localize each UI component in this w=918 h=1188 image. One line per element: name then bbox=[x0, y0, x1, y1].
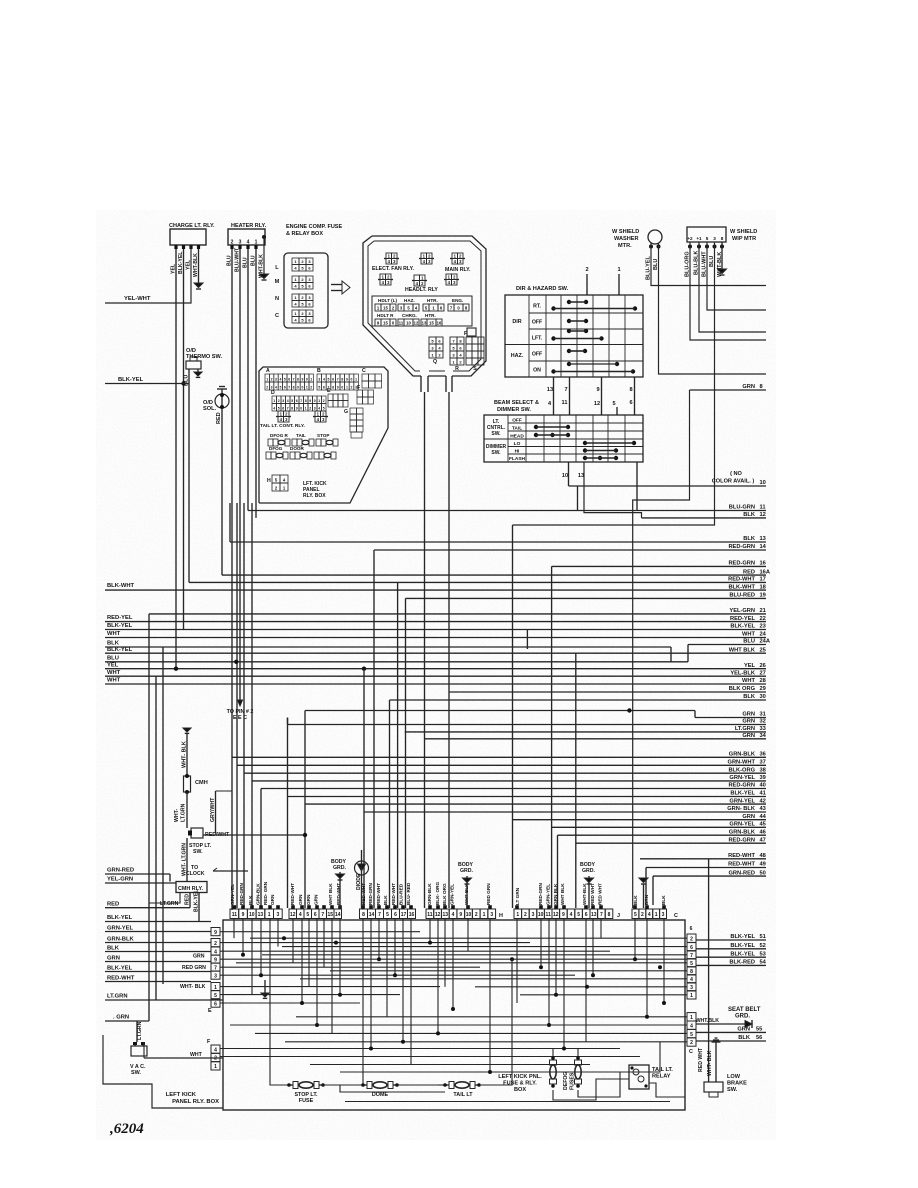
connector D cells bbox=[272, 396, 277, 404]
ground CMH chain top bbox=[183, 728, 191, 732]
wire from engine box leg B bbox=[448, 392, 450, 908]
motor washer body bbox=[648, 230, 662, 244]
ground BRN wire bbox=[639, 878, 648, 883]
wire BLU 24A bbox=[688, 644, 766, 646]
wire BLK 12 bbox=[642, 517, 767, 519]
trunk vertical at 405.5 lines 19/33 bbox=[405, 598, 407, 908]
wire WHT 28 bbox=[105, 683, 766, 685]
dir hazard pin 1 bbox=[618, 274, 620, 295]
jog vertical 688 bbox=[687, 645, 689, 662]
wire RED-WHT 49 bbox=[646, 867, 766, 869]
junction stub/trunk 632 bbox=[627, 708, 631, 712]
fuse row 1 bbox=[268, 439, 273, 446]
trunk vertical at 397.6 from line 17 bbox=[397, 582, 399, 908]
left connector column cells F group bbox=[211, 1045, 220, 1053]
trunk wire from lower box bottom c bbox=[251, 503, 253, 908]
connector row group 2 cells 12 4 5 6 7 15 14 bbox=[289, 909, 297, 919]
beam select contacts FLASH bbox=[583, 456, 587, 460]
charge rly pins bbox=[174, 245, 177, 249]
engine relay box inner outline bbox=[374, 241, 481, 371]
wire BLU-ORG wiper to line 5 bbox=[690, 242, 766, 340]
wire from engine box leg A bbox=[424, 392, 426, 908]
washer motor leads bbox=[649, 245, 653, 249]
trunk wire from lower box bottom a bbox=[236, 503, 238, 908]
engine relay box outer outline bbox=[372, 236, 486, 376]
engine box fuse table frame bbox=[372, 296, 472, 326]
switch VAC SW bbox=[131, 1046, 147, 1056]
wire BLK-YEL from CMH RLY bbox=[198, 892, 200, 922]
wire GRN 44 bbox=[513, 819, 767, 821]
wire BLK-YEL 53 bbox=[696, 956, 766, 958]
wire BLK-YEL left line bbox=[105, 383, 189, 385]
switch O/D THERMO SW body bbox=[186, 361, 201, 369]
relay top middle symbol bbox=[421, 253, 427, 259]
wire LT.GRN into box bbox=[105, 999, 223, 1001]
wire YEL-GRN 21 bbox=[149, 613, 766, 615]
wire BLK-YEL 51 bbox=[696, 939, 766, 941]
wire GRN- BLK 43 bbox=[364, 811, 766, 813]
ground inside box bbox=[261, 993, 269, 997]
trunk vertical from line 14 bbox=[373, 550, 375, 908]
relay TAIL LT RELAY bbox=[629, 1065, 649, 1089]
solenoid O/D SOL body bbox=[215, 394, 229, 408]
O/D sol top tick bbox=[217, 388, 227, 390]
wire BLU heater pin 4 to line 11 bbox=[247, 249, 249, 511]
vertical link line10 to line11 bbox=[577, 486, 579, 511]
dir hazard contacts OFF bbox=[567, 319, 571, 323]
trunk vertical from line 30 bbox=[389, 700, 391, 908]
beam select contacts HEAD bbox=[534, 433, 538, 437]
junction YEL/trunk364 bbox=[362, 667, 366, 671]
wire LT GRN from CMH RLY bbox=[149, 892, 180, 903]
wire BLU-BLK wiper to line 4 bbox=[699, 242, 766, 332]
wire RED-YEL 22 bbox=[105, 621, 766, 623]
ground charge rly pin 4 bbox=[194, 283, 203, 288]
wire GRN-YEL into left kick box bbox=[105, 931, 211, 933]
beam select bottom pin 13 bbox=[584, 462, 642, 518]
relay HEATER RLY. body bbox=[228, 229, 265, 245]
wire BLU from O/D thermo to RED-WHT 17 bbox=[188, 369, 190, 582]
wire BLK-YEL 23 bbox=[527, 629, 766, 631]
connector A cells bbox=[265, 374, 269, 382]
wire from lower box to line 13 bbox=[229, 503, 231, 542]
wire RED-GRN 16 bbox=[552, 565, 766, 567]
trunk vertical 305 with stop light branch bbox=[304, 711, 306, 909]
wire WHT-BLK wiper to ground bbox=[721, 242, 723, 269]
connector H cells bbox=[272, 475, 280, 483]
wire GRY-WHT branch bbox=[216, 790, 233, 792]
wire BLK-YEL 52 bbox=[696, 948, 766, 950]
wire GRN-WHT 37 bbox=[237, 764, 766, 766]
wire WHT-BLK heater to ground bbox=[262, 235, 266, 239]
ground wiper motor bbox=[718, 269, 727, 274]
connector E cells bbox=[328, 394, 333, 401]
wire vac sw pin2 to WHT bbox=[143, 1042, 145, 1058]
wire YEL-GRN to CMH RLY bbox=[105, 882, 176, 884]
wire GRN 34 bbox=[425, 738, 767, 740]
beam select bottom stub to line 11 bbox=[636, 462, 638, 511]
trunk vertical from line 40 bbox=[260, 789, 262, 909]
wire RED-WHT stop sw to trunk bbox=[203, 834, 305, 836]
trunk vertical 163 bbox=[162, 647, 164, 984]
trunk vertical 575 from line 25 bbox=[575, 653, 577, 908]
wire RED 16A bbox=[222, 574, 766, 576]
connector F cells bbox=[357, 390, 363, 397]
wire GRN 31 bbox=[695, 717, 766, 719]
wire GRN into left kick box bbox=[105, 961, 211, 963]
wire WHT-BLK to CMH bbox=[186, 734, 188, 776]
wire BLK-WHT 18 bbox=[105, 589, 766, 591]
engine relay box bottom legs bbox=[451, 376, 453, 392]
dir hazard contacts ON bbox=[567, 362, 571, 366]
beam select switch grid bbox=[484, 415, 643, 462]
wire BLU wiper trunk bbox=[513, 242, 715, 525]
connector row group 3 cells 8 14 7 5 6 17 16 bbox=[360, 909, 368, 919]
wire BLU-YEL washer to line 1 bbox=[651, 243, 766, 286]
wire GRN 8 bbox=[690, 389, 767, 391]
connector Q cells bbox=[429, 337, 436, 344]
wire BLU washer to line 7 bbox=[659, 243, 767, 374]
wire RED left line bbox=[105, 907, 190, 909]
trunk vertical 156 bbox=[155, 676, 157, 1000]
wire RED-GRN 40 bbox=[261, 788, 766, 790]
trunk vertical 512 wiper blu bbox=[512, 525, 514, 908]
dir hazard contacts LFT bbox=[567, 329, 571, 333]
box interior vertical wires bbox=[234, 919, 664, 1072]
wire GRN-RED to CMH RLY bbox=[105, 873, 170, 875]
wire BLK 30 bbox=[390, 699, 767, 701]
wire BLU-GRN 11 bbox=[248, 510, 766, 512]
ground WHT-BLK low brake bbox=[712, 1041, 721, 1043]
wire WHT into box bbox=[144, 1057, 223, 1059]
wire BLU left segment feeding 24A bbox=[105, 661, 688, 663]
connector block small fuse cells bbox=[292, 258, 299, 265]
relay row2 left symbol bbox=[380, 274, 386, 280]
wire RED WHT to low brake sw bbox=[708, 859, 710, 1082]
fuse row 2 bbox=[266, 452, 271, 459]
trunk wire from lower box bottom b bbox=[243, 503, 245, 908]
wire BLU-RED 19 bbox=[406, 597, 767, 599]
relay ELECT FAN RLY symbol bbox=[386, 253, 392, 259]
trunk vertical from line 49 bbox=[645, 868, 647, 906]
beam select bottom pin 10 bbox=[568, 462, 570, 486]
wire GRN-YEL 45 bbox=[552, 826, 766, 828]
trunk vertical from line 16 bbox=[551, 566, 553, 908]
wire YEL from charge rly pin 3 to YEL-WHT bbox=[123, 249, 191, 303]
wire RED-WHT 48 bbox=[640, 858, 766, 860]
relay symbol tail lt cont 1 bbox=[278, 411, 284, 417]
connector row group 1 cells 11 9 10 13 1 3 bbox=[230, 909, 239, 919]
wire BLK into left kick box bbox=[105, 951, 211, 953]
relay MAIN RLY symbol bbox=[452, 253, 458, 259]
wire YEL from charge rly pin 1 bbox=[175, 249, 177, 669]
dir hazard switch grid bbox=[505, 295, 643, 377]
ground heater rly bbox=[260, 274, 269, 279]
wire BLK-YEL from charge rly pin 2 bbox=[183, 249, 185, 630]
wire dome to tail bbox=[397, 1084, 449, 1086]
trunk vertical from line 32 bbox=[287, 718, 289, 909]
beam select contacts LO bbox=[583, 441, 587, 445]
wire BLK 56 bbox=[696, 1040, 766, 1042]
wire BLK-RED 54 bbox=[696, 964, 766, 966]
wire WHT-LT.GRN CMH to stop lt sw bbox=[186, 792, 188, 828]
switch STOP LT SW bbox=[191, 828, 203, 838]
wire GRN-RED 50 bbox=[653, 875, 766, 877]
dir hazard bottom pins 13 7 9 8 bbox=[553, 377, 555, 415]
trunk vertical from line 46 bbox=[557, 835, 559, 908]
switch LOW BRAKE SW bbox=[704, 1082, 723, 1092]
wire YEL-BLK 27 bbox=[105, 675, 766, 677]
wire GRN 55 bbox=[696, 1031, 766, 1033]
wire BLK-YEL left to jog bbox=[105, 629, 527, 631]
wire BLU-WHT heater pin 3 to EEC bbox=[239, 249, 241, 700]
wire BLK left segment bbox=[105, 646, 671, 648]
wire BLU-WHT wiper to line 3 bbox=[707, 242, 766, 310]
fuse DEFOG 1 bbox=[550, 1060, 557, 1065]
dir hazard contacts RT bbox=[567, 300, 571, 304]
wire RED from CMH RLY bbox=[189, 892, 191, 908]
connector wiper motor body bbox=[687, 227, 726, 242]
beam select contacts TAIL bbox=[534, 425, 538, 429]
wire BLK-YEL into left kick box bbox=[105, 971, 211, 973]
wire BLK-YEL 41 bbox=[288, 796, 767, 798]
wire YEL-WHT stub bbox=[105, 302, 123, 304]
relay CMH RLY bbox=[176, 882, 207, 893]
wire vac sw pin1 bbox=[136, 1021, 138, 1042]
wire BLK 13 bbox=[230, 541, 766, 543]
wire RED through O/D sol to RED16A bbox=[221, 389, 223, 575]
wire YEL 26 bbox=[105, 668, 766, 670]
wire (NO COLOR AVAIL) 10 bbox=[569, 485, 767, 487]
relay row2 right symbol bbox=[446, 274, 452, 280]
wire BLK-ORG 38 bbox=[244, 772, 766, 774]
wire bottom left corner bbox=[103, 1035, 223, 1108]
left kick panel fuse box outline bbox=[259, 367, 388, 503]
dir hazard contacts OFF2 bbox=[567, 349, 571, 353]
wire GRN-BLK into left kick box bbox=[105, 942, 211, 944]
fuse table row2 cells bbox=[375, 319, 381, 326]
relay CHARGE LT. RLY. body bbox=[170, 229, 206, 245]
wire GRN to vac sw bbox=[105, 1020, 149, 1022]
wire BLU heater pin 2 trunk bbox=[231, 249, 233, 910]
jog vertical 671 bbox=[670, 647, 672, 662]
fuse CMH bbox=[184, 776, 191, 792]
junction YEL/charge wire bbox=[174, 667, 178, 671]
wire WHT-BLK from charge rly pin 4 bbox=[198, 249, 200, 283]
fuse TAIL LT bbox=[449, 1082, 454, 1089]
wire GRN-BLK 36 bbox=[232, 756, 766, 758]
wire GRN 8 vertical drop bbox=[633, 390, 690, 908]
fuse DEFOG 2 bbox=[575, 1060, 582, 1065]
wire RED-WHT into left kick box bbox=[105, 981, 211, 983]
connector C cells bbox=[362, 374, 369, 381]
wire WHT 24 bbox=[105, 637, 766, 639]
beam select contacts HI bbox=[583, 448, 587, 452]
junction stop sw wire bbox=[303, 833, 307, 837]
jog vertical 695 bbox=[694, 711, 696, 718]
wire WHT BLK 25 bbox=[105, 652, 766, 654]
vertical wire labels above connector row bbox=[230, 881, 666, 905]
wire LT.GRN 33 bbox=[405, 731, 766, 733]
connector G cells bbox=[350, 408, 357, 414]
wire BLK ORG 29 bbox=[449, 691, 766, 693]
jog vertical at 527 bbox=[526, 630, 528, 650]
right connector column cells upper bbox=[687, 934, 696, 942]
relay symbol tail lt cont 2 bbox=[315, 411, 321, 417]
wire GRN-YEL 39 bbox=[252, 780, 766, 782]
connector row group 6 cells 5 2 4 1 3 bbox=[632, 909, 639, 919]
paper grain overlay bbox=[96, 210, 776, 1140]
junction on BLU segment bbox=[234, 660, 238, 664]
box interior horizontal wires bbox=[220, 932, 687, 1072]
trunk vertical from line 50 bbox=[652, 876, 654, 905]
connector S cells bbox=[466, 337, 472, 344]
wire GRN 32 bbox=[288, 724, 767, 726]
relay row2 middle symbol bbox=[414, 275, 420, 281]
box LEFT KICK PANEL RLY BOX outline bbox=[223, 920, 685, 1110]
wire WHT-LT.GRN below stop sw bbox=[186, 838, 188, 882]
wire BLK-YEL left line bbox=[105, 921, 211, 923]
arrow TO PIN #2 EEC bbox=[238, 700, 243, 706]
box interior junction dots bbox=[241, 936, 666, 1074]
trunk vertical from YEL line at 364 bbox=[363, 669, 365, 908]
connector row group 4 cells 11 12 13 4 9 10 2 1 3 bbox=[426, 909, 434, 919]
wire RED-WHT 17 bbox=[189, 581, 766, 583]
junction charge pin2 / BLK YEL bbox=[181, 381, 185, 385]
wire GRN-YEL 42 bbox=[305, 803, 766, 805]
connector R cells bbox=[450, 337, 457, 344]
ground O/D thermo bbox=[197, 369, 199, 372]
arrow to relay box bbox=[331, 284, 342, 286]
dir hazard pin 2 bbox=[586, 274, 588, 295]
left connector column cells bbox=[211, 928, 220, 936]
wire stub feeder line 31 bbox=[305, 710, 695, 712]
solder dots above connector row bbox=[233, 905, 666, 909]
box interior drop wires to fuses bbox=[270, 1017, 289, 1085]
wire RED-GRN 14 bbox=[374, 549, 766, 551]
connector block L M N C bbox=[284, 253, 328, 328]
wire GRN-BLK 46 bbox=[558, 834, 767, 836]
connector row group 5 cells 1 2 3 10 11 12 9 4 5 6 13 7 8 bbox=[514, 909, 522, 919]
fuse STOP LT FUSE bbox=[293, 1082, 298, 1089]
fuse DOME bbox=[367, 1082, 372, 1089]
wire RED-GRN 47 bbox=[576, 842, 766, 844]
box interior bottom bus wire bbox=[345, 1101, 670, 1103]
right connector column cells lower bbox=[687, 1013, 696, 1021]
connector B cells bbox=[317, 374, 322, 382]
wire BLU heater pin 1 to line 12 bbox=[255, 249, 257, 518]
fuse table row1 cells bbox=[375, 304, 381, 311]
trunk vertical 149 bbox=[148, 614, 150, 1021]
wire WHT.BLK seat belt ground bbox=[696, 1023, 745, 1025]
diode bbox=[355, 861, 369, 875]
